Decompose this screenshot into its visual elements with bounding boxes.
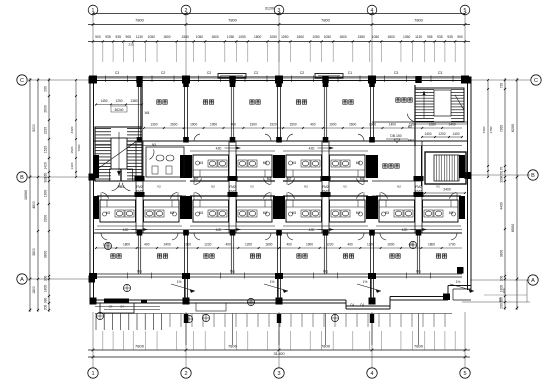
- svg-text:900: 900: [95, 35, 101, 39]
- svg-text:1900: 1900: [387, 243, 394, 247]
- svg-text:1200: 1200: [245, 243, 252, 247]
- svg-text:1: 1: [91, 371, 94, 377]
- axis bubble C right: [531, 75, 541, 85]
- interior dimension row bottom rooms: [95, 243, 462, 249]
- svg-text:4: 4: [370, 371, 373, 377]
- svg-text:C3: C3: [438, 71, 443, 75]
- svg-text:FM2: FM2: [229, 190, 236, 194]
- corridor lines: [142, 181, 421, 196]
- svg-text:1400: 1400: [449, 123, 456, 127]
- svg-text:B: B: [20, 175, 24, 181]
- right axis centre lines: [462, 80, 530, 302]
- svg-text:1050: 1050: [281, 35, 289, 39]
- svg-text:M3: M3: [170, 211, 175, 215]
- svg-text:2300: 2300: [44, 215, 48, 223]
- svg-text:1800: 1800: [254, 35, 262, 39]
- svg-text:1420: 1420: [44, 162, 48, 170]
- bottom axis centre lines: [93, 312, 465, 368]
- svg-text:200: 200: [502, 288, 506, 293]
- bottom extension lines: [103, 331, 455, 350]
- svg-text:16060: 16060: [24, 190, 28, 200]
- svg-text:C4: C4: [350, 303, 354, 307]
- svg-text:3800: 3800: [500, 250, 504, 258]
- svg-text:C3: C3: [115, 71, 120, 75]
- svg-text:1050: 1050: [196, 35, 204, 39]
- svg-text:1900: 1900: [184, 243, 191, 247]
- svg-text:4: 4: [371, 8, 374, 14]
- axis bubble 1 top: [88, 5, 98, 15]
- svg-text:M2: M2: [408, 125, 413, 129]
- svg-text:M3: M3: [292, 211, 297, 215]
- svg-text:W1: W1: [230, 270, 235, 274]
- sanitary cluster unit 4: [372, 141, 465, 233]
- staircase right: [415, 88, 464, 122]
- svg-text:1550: 1550: [182, 35, 190, 39]
- svg-text:935: 935: [105, 35, 111, 39]
- svg-text:V2: V2: [250, 185, 254, 189]
- columns right wall: [465, 77, 472, 180]
- svg-text:1220: 1220: [204, 243, 211, 247]
- svg-text:200: 200: [44, 86, 48, 92]
- top bedroom partitions: [137, 80, 329, 141]
- svg-text:M3: M3: [199, 161, 204, 165]
- svg-text:1050: 1050: [403, 35, 411, 39]
- label C4 C4 right: [350, 303, 364, 307]
- axis bubble 4 bottom: [367, 368, 377, 378]
- svg-text:FM1: FM1: [408, 139, 415, 143]
- svg-text:2600: 2600: [44, 105, 48, 113]
- svg-text:1050: 1050: [227, 35, 235, 39]
- elevator shaft: [425, 152, 466, 184]
- svg-text:FM2: FM2: [136, 190, 143, 194]
- right overall dimension line: [511, 78, 518, 310]
- svg-text:31400: 31400: [273, 351, 285, 356]
- bottom exterior wall stepped: [90, 286, 471, 310]
- downpipes: [184, 314, 374, 323]
- stair dims right: [421, 132, 463, 138]
- svg-text:1800: 1800: [387, 35, 395, 39]
- svg-text:M3: M3: [385, 211, 390, 215]
- svg-text:A: A: [531, 278, 535, 284]
- svg-text:4JD: 4JD: [216, 147, 222, 151]
- svg-text:N2: N2: [211, 185, 215, 189]
- dim 2400 right: [424, 188, 466, 194]
- top dimension extension lines: [103, 43, 455, 63]
- svg-text:4400: 4400: [500, 202, 504, 210]
- svg-text:W1: W1: [416, 270, 421, 274]
- stair hall label top right: [396, 98, 412, 102]
- svg-text:380: 380: [44, 177, 48, 183]
- svg-text:7800: 7800: [228, 18, 237, 23]
- door to stair hall: [407, 114, 417, 129]
- svg-text:1900: 1900: [44, 190, 48, 198]
- terrace posts: [95, 314, 452, 346]
- stair enclosure wall: [95, 80, 150, 127]
- columns left wall: [89, 77, 96, 283]
- svg-text:1050: 1050: [312, 35, 320, 39]
- axis bubble C left: [17, 75, 27, 85]
- band top wall: [94, 141, 468, 146]
- balcony partitions: [185, 277, 371, 300]
- note DB.150: [386, 134, 414, 143]
- svg-text:1300: 1300: [369, 123, 376, 127]
- right interior dimension line: [482, 79, 493, 178]
- svg-text:C3: C3: [394, 71, 399, 75]
- svg-text:905: 905: [427, 35, 433, 39]
- svg-text:1%: 1%: [363, 280, 368, 284]
- svg-text:935: 935: [447, 35, 453, 39]
- svg-text:2: 2: [184, 371, 187, 377]
- svg-text:M3: M3: [263, 161, 268, 165]
- svg-text:1050: 1050: [148, 35, 156, 39]
- svg-text:M3: M3: [263, 211, 268, 215]
- bedroom labels bottom: [111, 254, 447, 258]
- svg-text:1800: 1800: [265, 243, 272, 247]
- svg-text:3: 3: [277, 371, 280, 377]
- svg-text:1520: 1520: [44, 146, 48, 154]
- top exterior wall with windows: [90, 77, 471, 81]
- axis bubble B right: [528, 170, 538, 180]
- bottom right small dims: [484, 288, 527, 302]
- svg-text:2: 2: [185, 8, 188, 14]
- sanitary cluster unit 2: [186, 141, 279, 233]
- svg-text:300: 300: [500, 276, 504, 282]
- svg-text:1500: 1500: [290, 123, 297, 127]
- svg-text:M2: M2: [360, 177, 365, 181]
- stair dimension texts: [95, 99, 143, 112]
- svg-text:W1: W1: [137, 270, 142, 274]
- svg-text:4JD: 4JD: [216, 228, 222, 232]
- svg-text:300: 300: [500, 177, 504, 183]
- svg-text:1400: 1400: [389, 123, 396, 127]
- svg-text:1200: 1200: [438, 132, 445, 136]
- svg-text:1900: 1900: [329, 123, 336, 127]
- svg-text:C2: C2: [254, 71, 259, 75]
- svg-text:M3: M3: [356, 211, 361, 215]
- axis bubble A right: [528, 275, 538, 285]
- svg-text:3800: 3800: [32, 248, 36, 256]
- floor drains: [96, 241, 416, 322]
- svg-text:50240: 50240: [115, 108, 124, 112]
- svg-text:400: 400: [348, 243, 354, 247]
- right detail dimension line: [500, 78, 507, 310]
- top detail dimension line: [88, 35, 470, 47]
- wall below stair: [372, 122, 467, 124]
- window labels top wall: [115, 71, 443, 75]
- svg-text:2320: 2320: [44, 127, 48, 135]
- staircase left: [95, 127, 142, 181]
- svg-text:905: 905: [125, 35, 131, 39]
- svg-text:2320: 2320: [70, 126, 74, 133]
- svg-text:1800: 1800: [297, 35, 305, 39]
- svg-text:1900: 1900: [250, 123, 257, 127]
- svg-text:C2: C2: [300, 71, 305, 75]
- svg-text:900: 900: [457, 35, 463, 39]
- svg-text:V2: V2: [343, 185, 347, 189]
- svg-text:1900: 1900: [190, 123, 197, 127]
- svg-text:1520: 1520: [70, 146, 74, 153]
- entry steps bottom: [100, 303, 226, 313]
- svg-text:1800: 1800: [163, 35, 171, 39]
- sanitary cluster unit 1: [93, 141, 186, 233]
- svg-text:C: C: [534, 78, 538, 84]
- svg-text:1800: 1800: [339, 35, 347, 39]
- svg-text:C1: C1: [348, 71, 353, 75]
- svg-text:7800: 7800: [135, 18, 144, 23]
- svg-text:1%: 1%: [456, 280, 461, 284]
- svg-text:4JD: 4JD: [123, 228, 129, 232]
- interior dimension row top rooms: [143, 123, 462, 129]
- svg-text:7800: 7800: [414, 18, 423, 23]
- svg-text:B: B: [531, 173, 535, 179]
- svg-text:FM2: FM2: [322, 185, 329, 189]
- svg-text:400: 400: [226, 243, 232, 247]
- svg-text:1%: 1%: [270, 280, 275, 284]
- left secondary dimension line: [32, 78, 39, 312]
- label C4 C4 left and entry steps: [95, 305, 160, 310]
- svg-text:5: 5: [463, 371, 466, 377]
- axis bubble 5 bottom: [460, 368, 470, 378]
- sanitary cluster unit 3: [279, 141, 372, 233]
- bottom overall dimension line 31400: [88, 351, 470, 358]
- svg-text:1900: 1900: [306, 243, 313, 247]
- axis bubble 3 top: [274, 5, 284, 15]
- svg-text:3800: 3800: [44, 251, 48, 259]
- svg-text:9200: 9200: [32, 124, 36, 132]
- svg-text:C4: C4: [360, 303, 364, 307]
- bay window top 1: [218, 74, 246, 79]
- columns top wall: [89, 76, 469, 84]
- svg-text:N2: N2: [118, 185, 122, 189]
- svg-text:4JD: 4JD: [309, 147, 315, 151]
- svg-text:M2: M2: [194, 177, 199, 181]
- left axis centre lines: [28, 80, 90, 279]
- svg-text:2600: 2600: [349, 123, 356, 127]
- svg-text:1380: 1380: [130, 99, 137, 103]
- svg-text:2400: 2400: [443, 188, 451, 192]
- svg-text:935: 935: [115, 35, 121, 39]
- band bottom wall: [94, 230, 463, 234]
- svg-text:2600: 2600: [170, 123, 177, 127]
- svg-text:1800: 1800: [32, 286, 36, 294]
- svg-text:8500: 8500: [511, 224, 515, 232]
- bay window top 2: [315, 74, 343, 79]
- svg-text:FM2: FM2: [415, 185, 422, 189]
- svg-text:170: 170: [500, 167, 504, 173]
- svg-text:W1: W1: [323, 270, 328, 274]
- right exterior wall: [468, 77, 472, 290]
- svg-text:7260: 7260: [482, 126, 486, 133]
- svg-text:1800: 1800: [211, 35, 219, 39]
- bedroom labels top: [157, 100, 353, 104]
- axis bubble 4 top: [367, 5, 377, 15]
- svg-text:C: C: [20, 78, 24, 84]
- svg-text:7260: 7260: [500, 125, 504, 133]
- svg-text:DB.150: DB.150: [390, 134, 401, 138]
- svg-text:1280: 1280: [429, 123, 436, 127]
- svg-text:400: 400: [310, 123, 316, 127]
- svg-text:1950: 1950: [210, 123, 217, 127]
- svg-text:7800: 7800: [135, 344, 145, 349]
- svg-text:M3: M3: [356, 161, 361, 165]
- svg-text:FM2: FM2: [322, 190, 329, 194]
- svg-text:N2: N2: [304, 185, 308, 189]
- axis bubble 2 bottom: [181, 368, 191, 378]
- svg-text:1200: 1200: [367, 243, 374, 247]
- svg-text:400: 400: [144, 243, 150, 247]
- svg-text:720: 720: [500, 83, 504, 89]
- bottom window line W1: [95, 270, 462, 278]
- top dimension line 7800 segments: [88, 18, 470, 26]
- svg-text:1550: 1550: [358, 35, 366, 39]
- svg-text:7800: 7800: [321, 344, 331, 349]
- svg-text:200: 200: [44, 305, 48, 311]
- svg-text:7800: 7800: [321, 18, 330, 23]
- svg-text:935: 935: [437, 35, 443, 39]
- axis bubble 5 top: [460, 5, 470, 15]
- svg-text:7260: 7260: [77, 144, 81, 151]
- columns window line: [89, 273, 376, 279]
- svg-text:5: 5: [464, 8, 467, 14]
- svg-text:N3: N3: [152, 143, 156, 147]
- axis bubble A left: [17, 274, 27, 284]
- svg-text:1420: 1420: [70, 162, 74, 169]
- party walls full height: [183, 80, 375, 300]
- svg-text:1050: 1050: [238, 35, 246, 39]
- svg-text:1800: 1800: [123, 243, 130, 247]
- svg-text:1050: 1050: [372, 35, 380, 39]
- svg-text:V2: V2: [157, 185, 161, 189]
- svg-text:N2: N2: [397, 185, 401, 189]
- entrance double door FM1 left: [108, 169, 134, 191]
- svg-text:C2: C2: [207, 71, 212, 75]
- svg-text:300: 300: [44, 276, 48, 282]
- svg-text:400: 400: [287, 243, 293, 247]
- svg-text:400: 400: [231, 123, 237, 127]
- svg-text:8200: 8200: [511, 124, 515, 132]
- svg-text:4JD: 4JD: [402, 228, 408, 232]
- svg-text:31200: 31200: [265, 7, 276, 11]
- svg-text:C2: C2: [161, 71, 166, 75]
- svg-text:1920: 1920: [270, 123, 277, 127]
- svg-text:1050: 1050: [324, 35, 332, 39]
- svg-text:M2: M2: [267, 177, 272, 181]
- svg-text:380: 380: [498, 297, 502, 302]
- bottom bedroom partitions: [138, 233, 419, 274]
- svg-text:A: A: [20, 277, 24, 283]
- svg-text:1300: 1300: [150, 123, 157, 127]
- svg-text:1800: 1800: [428, 243, 435, 247]
- svg-text:2400: 2400: [164, 243, 171, 247]
- axis bubble 1 bottom: [88, 368, 98, 378]
- svg-text:FM2: FM2: [229, 185, 236, 189]
- svg-text:1130: 1130: [136, 35, 143, 39]
- svg-text:1130: 1130: [415, 35, 422, 39]
- svg-text:M3: M3: [449, 211, 454, 215]
- svg-text:M3: M3: [292, 161, 297, 165]
- svg-text:V2: V2: [436, 185, 440, 189]
- svg-text:200: 200: [500, 303, 504, 309]
- axis bubble B left: [17, 172, 27, 182]
- left overall dimension line: [24, 78, 31, 312]
- top axis centre lines: [93, 15, 465, 78]
- svg-text:4JD: 4JD: [309, 228, 315, 232]
- elevator hall label: [383, 164, 399, 168]
- columns bottom wall: [90, 267, 464, 305]
- svg-text:7800: 7800: [414, 344, 424, 349]
- svg-text:M3: M3: [106, 211, 111, 215]
- left interior dimension line: [70, 79, 81, 178]
- pier blocks band edges: [137, 137, 422, 236]
- svg-text:3: 3: [278, 8, 281, 14]
- axis bubble 3 bottom: [274, 368, 284, 378]
- stair hall west wall: [414, 85, 416, 146]
- window mullion ticks bottom line: [128, 273, 431, 279]
- bedroom door arcs: [101, 134, 457, 240]
- svg-text:1050: 1050: [270, 35, 278, 39]
- left exterior wall: [90, 77, 94, 303]
- svg-text:1700: 1700: [448, 243, 455, 247]
- svg-text:1%: 1%: [177, 280, 182, 284]
- svg-text:1250: 1250: [115, 99, 122, 103]
- svg-text:380: 380: [44, 298, 48, 304]
- svg-text:1220: 1220: [326, 243, 333, 247]
- balcony slope arrows: [171, 280, 474, 293]
- overall top dimension line 31200: [92, 7, 467, 15]
- bottom dimension line 7800 segments: [88, 344, 470, 352]
- left detail dimension line: [44, 78, 51, 312]
- svg-text:1780: 1780: [489, 126, 493, 133]
- svg-text:1400: 1400: [424, 132, 431, 136]
- svg-text:M3: M3: [199, 211, 204, 215]
- svg-text:W4: W4: [145, 111, 150, 115]
- svg-text:1800: 1800: [44, 285, 48, 293]
- window mullion ticks top wall: [106, 76, 454, 83]
- svg-text:4800: 4800: [32, 201, 36, 209]
- svg-text:1400: 1400: [452, 132, 459, 136]
- svg-text:FM2: FM2: [136, 185, 143, 189]
- svg-text:1450: 1450: [100, 99, 107, 103]
- elevator hall west wall: [421, 146, 423, 186]
- svg-text:FM2: FM2: [415, 190, 422, 194]
- svg-text:1: 1: [92, 8, 95, 14]
- svg-text:M2: M2: [287, 177, 292, 181]
- axis bubble 2 top: [181, 5, 191, 15]
